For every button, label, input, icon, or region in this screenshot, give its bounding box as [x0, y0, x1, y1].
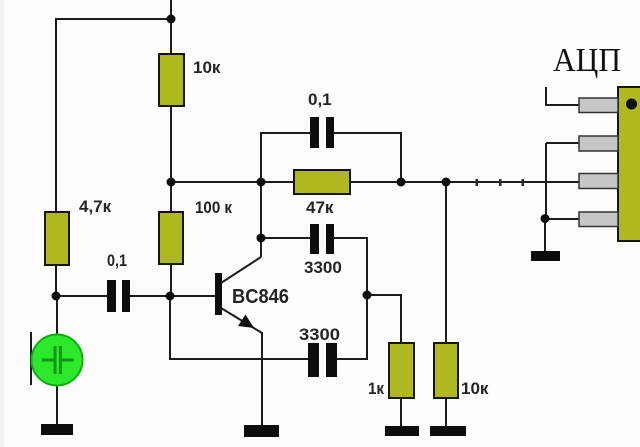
- wire R10k bottom to ground: [445, 398, 447, 427]
- tick mark 3: [522, 179, 525, 186]
- junction pin4 node: [541, 214, 550, 223]
- svg-text:1к: 1к: [368, 379, 384, 398]
- ground (10k): [430, 426, 466, 436]
- svg-text:3300: 3300: [299, 325, 340, 344]
- capacitor 3300 (lower): [308, 343, 337, 377]
- pin 1: [579, 98, 618, 113]
- transistor Q1 BC846: [215, 257, 262, 333]
- wire R4.7k to mic node: [55, 265, 57, 297]
- svg-text:10к: 10к: [461, 379, 489, 398]
- ground (emitter): [244, 425, 279, 437]
- svg-text:АЦП: АЦП: [553, 42, 621, 79]
- wire left vertical to R 4.7k: [55, 18, 57, 213]
- wire top3300 row right: [333, 237, 368, 239]
- wire pin4 to ground: [544, 219, 546, 252]
- wire top3300 row left: [261, 237, 311, 239]
- resistor 4.7k: [45, 212, 69, 265]
- wire 10k bottom to main row: [170, 105, 172, 183]
- wire pin4 horizontal: [545, 218, 580, 220]
- wire cap0.1 row left: [260, 132, 311, 134]
- junction collector row: [257, 178, 266, 187]
- junction collector node: [257, 234, 266, 243]
- wire mic top lead: [56, 296, 58, 336]
- wire pin2 horizontal: [546, 142, 580, 144]
- wire cap to base node: [129, 295, 171, 297]
- junction top supply: [167, 15, 176, 24]
- wire base lead: [170, 295, 215, 297]
- resistor 10k (top): [159, 54, 184, 106]
- wire top vertical supply: [170, 0, 172, 55]
- junction feedback node: [363, 291, 372, 300]
- microphone M1: [32, 335, 83, 386]
- svg-text:47к: 47к: [306, 198, 334, 217]
- wire main signal row: [171, 181, 579, 183]
- wire cap0.1 left vertical / collector vertical: [260, 133, 262, 257]
- wire down to R1k top: [400, 294, 402, 344]
- wire main row to 100k top: [170, 182, 172, 213]
- wire bottom row left: [169, 358, 309, 360]
- resistor 1k: [389, 343, 414, 398]
- wire bottom row right: [336, 358, 368, 360]
- wire top horizontal: [56, 18, 172, 20]
- resistor 100k: [159, 212, 183, 264]
- svg-text:BC846: BC846: [232, 286, 289, 308]
- ground (microphone): [41, 424, 73, 435]
- junction main row left: [167, 178, 176, 187]
- capacitor 3300 (upper): [310, 224, 334, 254]
- wire mic bottom lead: [56, 384, 58, 426]
- junction cap right row: [397, 178, 406, 187]
- pin 4: [579, 212, 618, 227]
- resistor 47k: [294, 170, 350, 194]
- wire emitter vertical to ground: [261, 332, 263, 426]
- svg-text:0,1: 0,1: [308, 90, 332, 109]
- wire loop node to R1k: [367, 294, 401, 296]
- capacitor 0.1 (top): [310, 117, 334, 148]
- wire pin1 stub up: [545, 87, 547, 106]
- svg-text:3300: 3300: [304, 258, 342, 277]
- ground (ADC): [531, 251, 560, 261]
- ADC connector U1: [618, 87, 640, 241]
- wire right loop vertical: [366, 238, 368, 360]
- pin 3: [579, 174, 618, 189]
- wire cap0.1 row right: [333, 132, 401, 134]
- junction base node: [166, 292, 175, 301]
- ground (1k): [385, 426, 419, 436]
- svg-text:4,7к: 4,7к: [79, 197, 112, 216]
- wire R1k bottom to ground: [400, 398, 402, 427]
- wire base loop down: [169, 296, 171, 360]
- capacitor 0.1 (mic coupling): [107, 280, 130, 312]
- svg-text:10к: 10к: [193, 58, 221, 77]
- wire mic membrane line: [30, 332, 32, 385]
- junction row to 10k: [442, 178, 451, 187]
- wire cap0.1 right vertical: [400, 132, 402, 183]
- junction mic node: [52, 292, 61, 301]
- resistor 10k (right): [434, 343, 458, 398]
- svg-text:0,1: 0,1: [107, 251, 127, 270]
- wire main row down to R10k right: [445, 182, 447, 344]
- tick mark 1: [476, 179, 479, 186]
- pin 2: [579, 136, 618, 151]
- ADC mark dot: [626, 99, 637, 110]
- svg-text:100 к: 100 к: [195, 198, 232, 217]
- tick mark 2: [499, 179, 502, 186]
- wire pin2 to pin4 vertical: [545, 143, 547, 219]
- wire 100k bottom to base node: [170, 263, 172, 297]
- wire mic node to cap: [56, 295, 108, 297]
- wire pin1 horizontal: [545, 104, 580, 106]
